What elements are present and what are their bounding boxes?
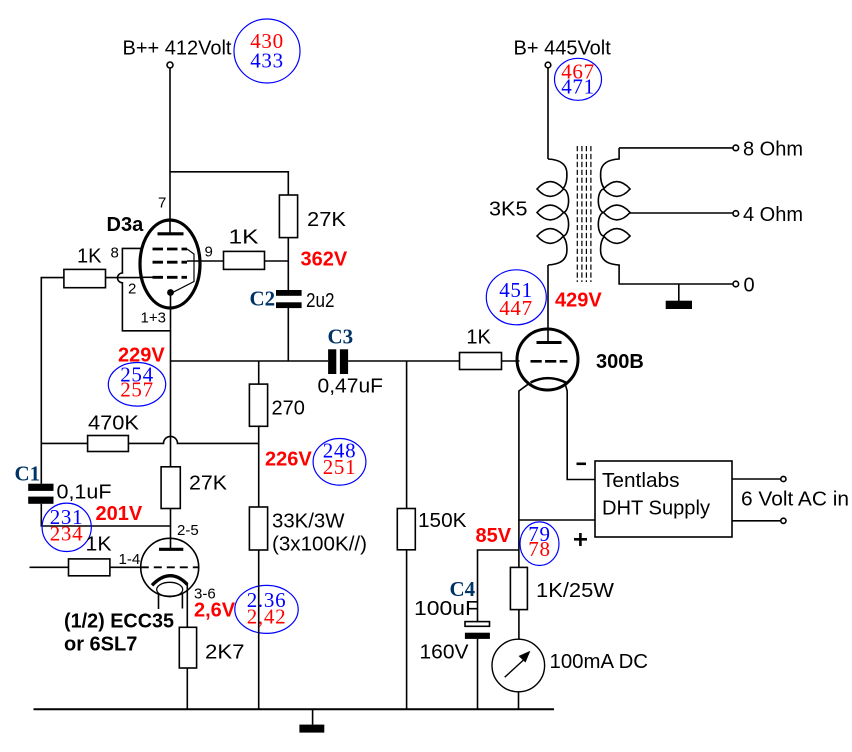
svg-text:2-5: 2-5 bbox=[177, 522, 199, 539]
svg-text:(3x100K//): (3x100K//) bbox=[272, 534, 367, 556]
svg-text:27K: 27K bbox=[189, 473, 228, 495]
tube D3a bbox=[107, 214, 201, 308]
svg-text:362V: 362V bbox=[301, 249, 348, 271]
measurement bubble 467/471 bbox=[555, 58, 602, 100]
svg-text:270: 270 bbox=[272, 398, 305, 420]
resistor 470K feedback bbox=[88, 413, 140, 452]
svg-text:4 Ohm: 4 Ohm bbox=[743, 204, 803, 226]
wire 1K to 362V node bbox=[265, 260, 289, 262]
measurement bubble 254/257 bbox=[108, 362, 165, 406]
main signal wire 229V row bbox=[171, 360, 329, 362]
ground rail bbox=[34, 708, 555, 710]
measurement bubble 231/234 bbox=[42, 503, 91, 551]
svg-text:2K7: 2K7 bbox=[205, 642, 245, 664]
svg-text:471: 471 bbox=[561, 75, 595, 99]
wire 270 to 226V node bbox=[258, 426, 260, 507]
svg-text:78: 78 bbox=[528, 537, 550, 561]
svg-text:0,47uF: 0,47uF bbox=[318, 376, 384, 398]
svg-text:1K/25W: 1K/25W bbox=[536, 580, 614, 602]
Tentlabs DHT Supply box bbox=[595, 461, 732, 537]
measurement bubble 79/78 bbox=[520, 522, 559, 566]
wire B++ to D3a plate bbox=[169, 68, 171, 234]
measurement bubble 248/251 bbox=[313, 439, 366, 486]
resistor 2K7 cathode bbox=[179, 627, 244, 668]
wire 33K to ground rail bbox=[258, 550, 260, 709]
wire 150K to ground rail bbox=[406, 550, 408, 710]
svg-text:201V: 201V bbox=[96, 503, 143, 525]
svg-text:DHT Supply: DHT Supply bbox=[602, 498, 710, 520]
wire 27K to ECC35 plate bbox=[170, 509, 172, 549]
svg-text:447: 447 bbox=[499, 296, 533, 320]
wire junction to DHT plus bbox=[519, 519, 595, 521]
wire C2 to main node bbox=[287, 308, 289, 361]
wire 229V node down to 27K bbox=[170, 361, 172, 467]
resistor 33K/3W bbox=[249, 507, 367, 556]
svg-text:Tentlabs: Tentlabs bbox=[602, 470, 680, 492]
wire transformer to 300B anode bbox=[547, 265, 549, 343]
svg-text:0,1uF: 0,1uF bbox=[57, 482, 112, 504]
capacitor C2 2u2 bbox=[250, 287, 335, 313]
svg-text:1K: 1K bbox=[77, 246, 102, 268]
svg-text:226V: 226V bbox=[265, 449, 312, 471]
capacitor C1 0,1uF bbox=[15, 462, 112, 504]
wire C3 to 1K grid resistor bbox=[348, 360, 459, 362]
wire meter to ground rail bbox=[518, 692, 520, 710]
resistor 27K (interstage) bbox=[161, 467, 228, 509]
wire pin8 bracket to cathode bbox=[118, 248, 171, 330]
svg-text:C3: C3 bbox=[328, 325, 354, 349]
svg-text:(1/2) ECC35: (1/2) ECC35 bbox=[64, 611, 174, 633]
svg-text:100mA DC: 100mA DC bbox=[550, 651, 649, 673]
terminal 8 Ohm bbox=[733, 145, 739, 151]
minus label bbox=[577, 462, 587, 465]
wire 27K to 362V node bbox=[287, 238, 289, 290]
terminal 0 bbox=[733, 281, 739, 287]
wire 1K to 300B grid bbox=[502, 360, 520, 362]
wire pin9 to 1K bbox=[187, 260, 224, 262]
svg-text:2,6V: 2,6V bbox=[194, 600, 236, 622]
wire secondary 4 Ohm tap bbox=[630, 212, 733, 214]
transformer OPT 3K5 primary winding bbox=[537, 159, 569, 265]
transformer core bbox=[577, 146, 591, 282]
wire 1K to D3a grid bbox=[106, 277, 142, 279]
transformer secondary winding bbox=[598, 148, 630, 266]
svg-text:160V: 160V bbox=[420, 642, 470, 664]
svg-text:7: 7 bbox=[158, 195, 166, 212]
wire ECC35 cathode to 2K7 bbox=[186, 584, 188, 627]
wire DHT AC out bottom bbox=[732, 520, 781, 522]
wire input to 1K bbox=[30, 566, 69, 568]
terminal AC bottom bbox=[781, 518, 786, 523]
resistor 1K (grid2 stopper, pin 9) bbox=[224, 227, 265, 270]
svg-text:433: 433 bbox=[250, 49, 284, 73]
terminal B+ bbox=[545, 62, 551, 68]
svg-text:470K: 470K bbox=[88, 413, 140, 435]
terminal B++ bbox=[167, 62, 173, 68]
svg-text:300B: 300B bbox=[596, 351, 644, 373]
wire secondary 8 Ohm tap bbox=[619, 147, 733, 149]
wire 300B filament left to DHT + bbox=[519, 383, 529, 567]
svg-text:0: 0 bbox=[744, 275, 755, 297]
wire 470K row with hop over cathode line bbox=[41, 436, 258, 443]
capacitor C3 0,47uF bbox=[318, 325, 384, 398]
svg-text:C2: C2 bbox=[250, 287, 276, 311]
measurement bubble 451/447 bbox=[486, 270, 546, 325]
svg-text:27K: 27K bbox=[307, 209, 347, 231]
svg-text:C1: C1 bbox=[15, 462, 41, 486]
svg-text:1K: 1K bbox=[466, 327, 491, 349]
svg-text:3K5: 3K5 bbox=[489, 199, 528, 221]
wire B+ to transformer primary bbox=[547, 68, 549, 159]
svg-text:1K: 1K bbox=[229, 227, 260, 249]
wire 85V node to C4 bbox=[478, 550, 519, 621]
wire B++ branch to 27K bbox=[170, 172, 288, 195]
resistor 1K/25W bbox=[510, 567, 614, 609]
resistor 270 bbox=[249, 384, 304, 426]
svg-text:or 6SL7: or 6SL7 bbox=[64, 634, 137, 656]
svg-text:33K/3W: 33K/3W bbox=[272, 511, 345, 533]
svg-text:6 Volt AC in: 6 Volt AC in bbox=[741, 489, 849, 511]
svg-text:8 Ohm: 8 Ohm bbox=[743, 139, 803, 161]
wire secondary 0 tap bbox=[619, 265, 733, 284]
svg-text:150K: 150K bbox=[418, 510, 467, 532]
wire C4 to ground rail bbox=[477, 639, 479, 709]
plus label bbox=[574, 533, 587, 546]
ground symbol bbox=[299, 709, 324, 732]
tube label (1/2) ECC35 or 6SL7 bbox=[64, 611, 174, 656]
svg-text:429V: 429V bbox=[555, 290, 602, 312]
ground at 0 tap bbox=[666, 284, 692, 309]
svg-text:9: 9 bbox=[205, 244, 213, 261]
svg-text:D3a: D3a bbox=[107, 214, 145, 236]
svg-text:1-4: 1-4 bbox=[119, 551, 141, 568]
resistor 1K (grid1 stopper, pin 2) bbox=[64, 246, 106, 288]
svg-text:2,42: 2,42 bbox=[247, 605, 287, 629]
svg-text:2u2: 2u2 bbox=[306, 290, 335, 312]
svg-text:251: 251 bbox=[323, 455, 357, 479]
svg-text:234: 234 bbox=[50, 521, 84, 545]
svg-text:85V: 85V bbox=[476, 525, 512, 547]
resistor 150K bbox=[397, 509, 467, 550]
terminal 4 Ohm bbox=[733, 211, 739, 217]
svg-text:1+3: 1+3 bbox=[141, 310, 166, 327]
wire 1K to ECC35 grid bbox=[110, 566, 142, 568]
measurement bubble 430/433 bbox=[234, 19, 300, 83]
wire 1K/25W to meter bbox=[518, 610, 520, 640]
wire C1 to 201V row bbox=[41, 504, 170, 526]
wire DHT AC out top bbox=[732, 478, 781, 480]
svg-text:B++ 412Volt: B++ 412Volt bbox=[123, 38, 232, 60]
meter 100mA DC bbox=[492, 639, 648, 692]
svg-text:B+ 445Volt: B+ 445Volt bbox=[514, 38, 612, 60]
resistor 1K (300B grid stopper) bbox=[460, 327, 502, 370]
terminal AC top bbox=[781, 476, 786, 481]
svg-text:2: 2 bbox=[128, 281, 136, 298]
wire 1K left down feedback bbox=[41, 278, 64, 484]
resistor 27K (D3a plate load) bbox=[279, 195, 346, 238]
tube 300B bbox=[517, 329, 578, 390]
wire 2K7 to ground rail bbox=[186, 668, 188, 709]
capacitor C4 100uF 160V bbox=[414, 577, 490, 664]
wire to 270 bbox=[258, 361, 260, 384]
svg-text:8: 8 bbox=[111, 245, 119, 262]
wire 300B filament right to DHT minus bbox=[565, 383, 595, 479]
measurement bubble 2.36/2,42 bbox=[235, 585, 298, 633]
svg-text:257: 257 bbox=[120, 378, 154, 402]
resistor 1K (input grid stopper) bbox=[69, 534, 113, 576]
svg-text:100uF: 100uF bbox=[414, 598, 479, 620]
wire D3a cathode down bbox=[170, 293, 172, 362]
wire to 150K bbox=[406, 361, 408, 509]
tube ECC35 bbox=[141, 538, 199, 609]
svg-text:1K: 1K bbox=[86, 534, 113, 556]
